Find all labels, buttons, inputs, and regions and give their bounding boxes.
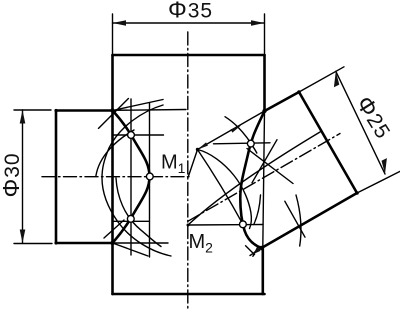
svg-text:M2: M2 bbox=[189, 231, 214, 256]
svg-text:Φ35: Φ35 bbox=[168, 0, 213, 23]
svg-text:Φ30: Φ30 bbox=[0, 152, 24, 197]
svg-text:M1: M1 bbox=[161, 152, 186, 177]
